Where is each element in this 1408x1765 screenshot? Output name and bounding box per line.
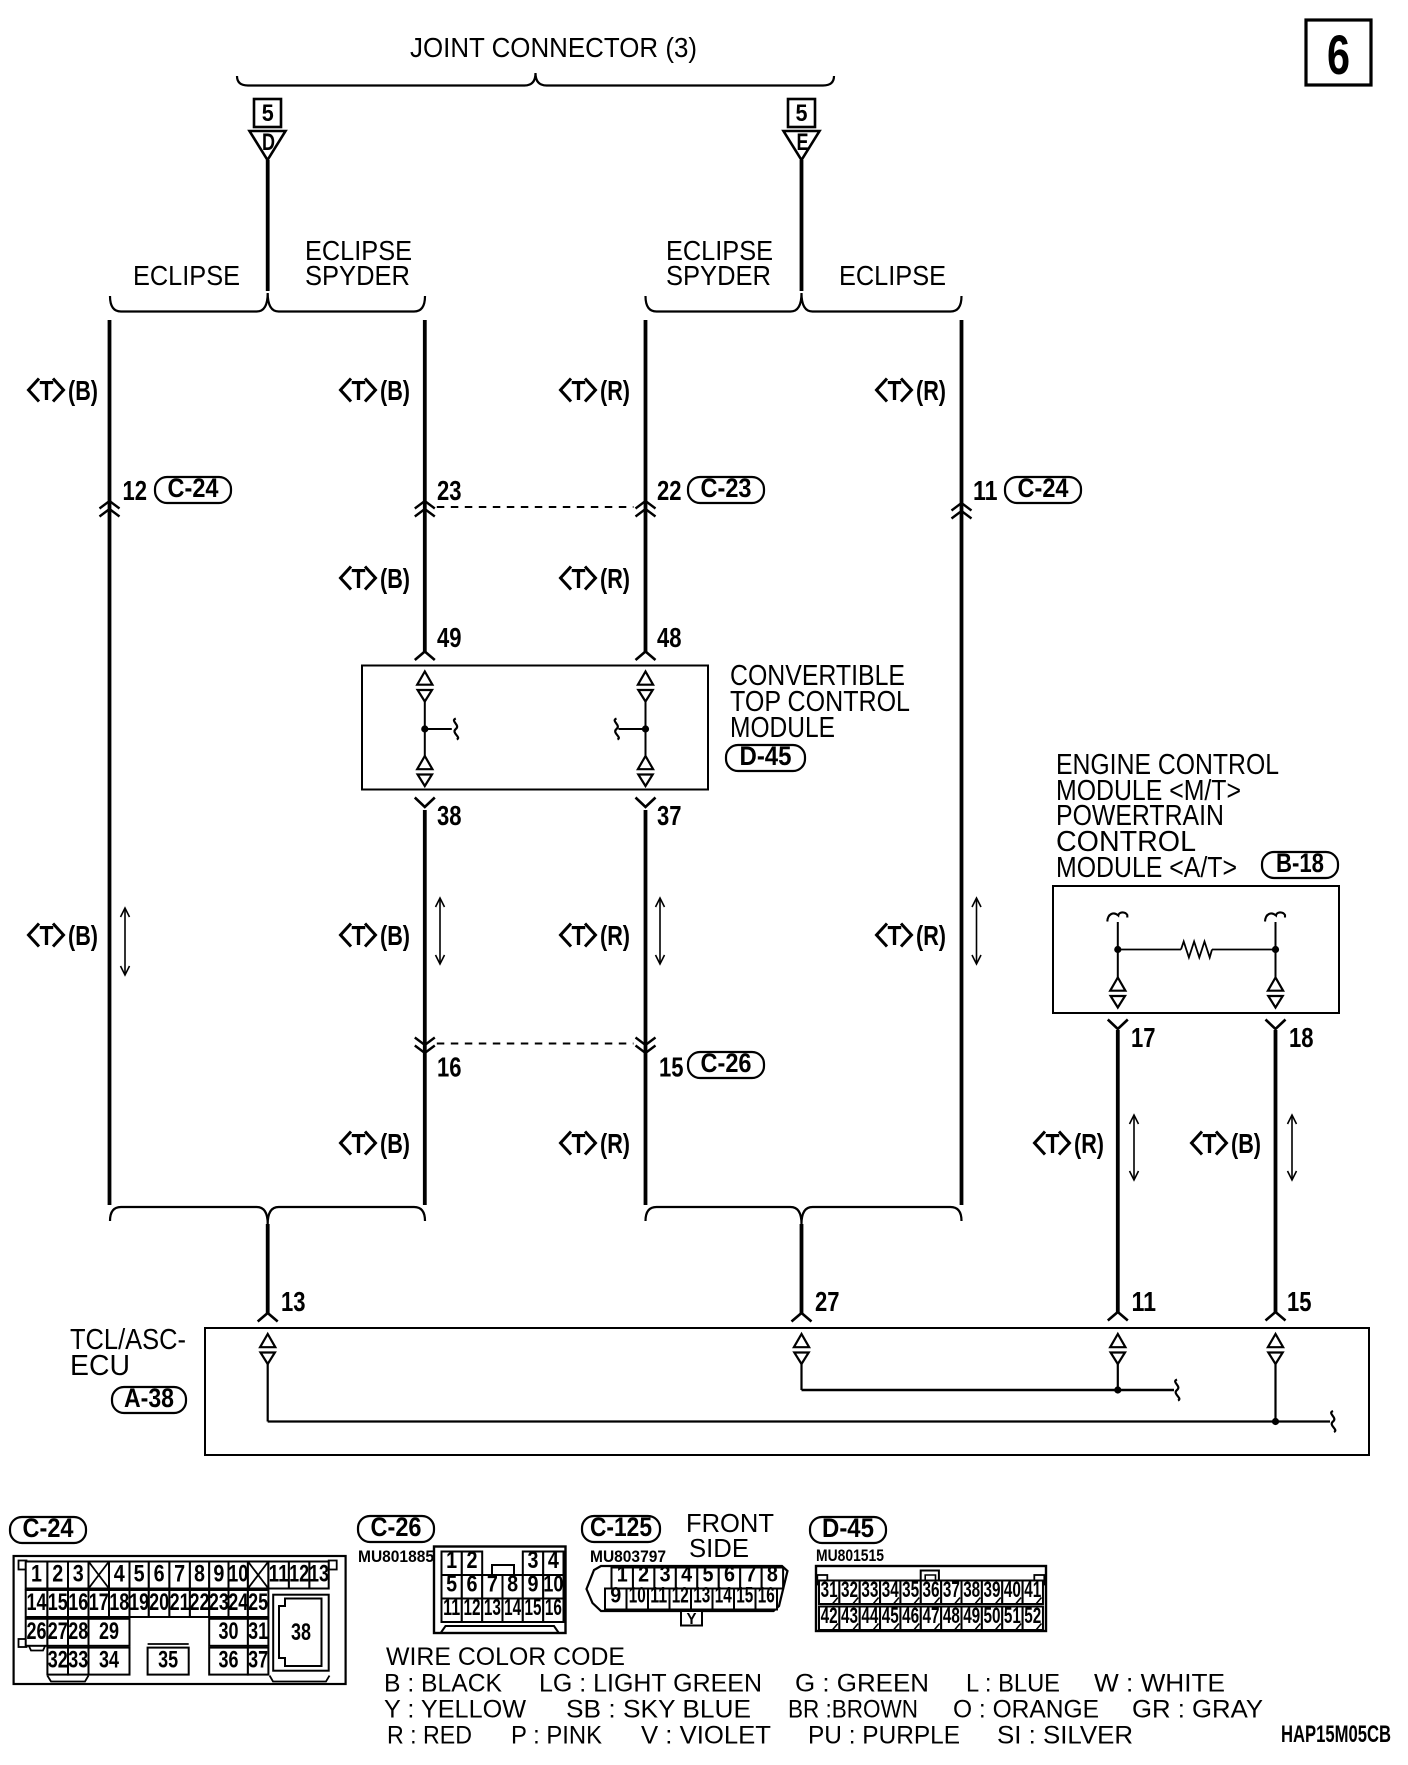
svg-text:ECLIPSE: ECLIPSE bbox=[133, 260, 240, 291]
TCL internal wire from 15 bbox=[1274, 1364, 1276, 1422]
connector ref C-24 (left) bbox=[155, 477, 231, 503]
label T(B) row C at L1 bbox=[29, 924, 40, 947]
ECM terminal triangles 17 bbox=[1110, 978, 1125, 991]
joint connector D (5) bbox=[250, 99, 286, 160]
terminal fork TCL pin 13 bbox=[258, 1313, 278, 1322]
arrow updown ECM 17 bbox=[1133, 1117, 1135, 1179]
label T(B) row C at L2 bbox=[341, 924, 352, 947]
svg-text:31: 31 bbox=[248, 1618, 268, 1645]
svg-text:SPYDER: SPYDER bbox=[666, 260, 771, 291]
svg-text:T: T bbox=[1046, 1128, 1060, 1159]
joint connector E (5) bbox=[784, 99, 820, 160]
connector crossing chevrons L2 bbox=[415, 501, 435, 509]
svg-text:(B): (B) bbox=[68, 375, 98, 406]
svg-text:11: 11 bbox=[1132, 1286, 1157, 1317]
terminal fork out of module at 38 bbox=[415, 798, 435, 808]
svg-text:48: 48 bbox=[657, 622, 682, 653]
svg-text:12: 12 bbox=[464, 1594, 481, 1620]
label T(B) at ECM wire 18 bbox=[1192, 1132, 1203, 1155]
wire to TCL pin 27 bbox=[800, 1224, 804, 1313]
svg-text:32: 32 bbox=[841, 1577, 858, 1602]
terminal fork out of module at 37 bbox=[636, 798, 656, 808]
svg-text:29: 29 bbox=[99, 1618, 119, 1645]
svg-text:Y : YELLOW: Y : YELLOW bbox=[384, 1696, 526, 1724]
svg-text:15: 15 bbox=[48, 1589, 68, 1616]
svg-text:10: 10 bbox=[228, 1561, 248, 1588]
svg-text:C-24: C-24 bbox=[1018, 473, 1069, 503]
label T(B) row D at L2 bbox=[341, 1132, 352, 1155]
svg-text:Y: Y bbox=[687, 1611, 697, 1628]
svg-text:P : PINK: P : PINK bbox=[511, 1722, 602, 1750]
arrow updown L4 bbox=[976, 900, 978, 963]
svg-text:C-24: C-24 bbox=[168, 473, 219, 503]
connector ref D-45 bbox=[726, 745, 805, 771]
svg-text:9: 9 bbox=[528, 1571, 539, 1597]
svg-text:27: 27 bbox=[48, 1618, 68, 1645]
svg-text:D-45: D-45 bbox=[740, 741, 792, 771]
svg-text:18: 18 bbox=[109, 1589, 129, 1616]
svg-text:32: 32 bbox=[48, 1647, 68, 1674]
svg-text:26: 26 bbox=[27, 1618, 47, 1645]
svg-text:38: 38 bbox=[963, 1577, 980, 1602]
brace bottom left group bbox=[110, 1207, 425, 1224]
connector ref C-24 (right) bbox=[1005, 477, 1081, 503]
svg-text:16: 16 bbox=[68, 1589, 88, 1616]
svg-text:MODULE: MODULE bbox=[730, 712, 835, 744]
svg-text:20: 20 bbox=[149, 1589, 169, 1616]
svg-text:34: 34 bbox=[882, 1577, 900, 1602]
TCL terminal triangles pin 13 bbox=[260, 1334, 275, 1347]
svg-text:7: 7 bbox=[174, 1561, 185, 1588]
svg-text:44: 44 bbox=[861, 1603, 879, 1628]
svg-text:31: 31 bbox=[821, 1577, 838, 1602]
svg-text:ECLIPSE: ECLIPSE bbox=[839, 260, 946, 291]
svg-text:T: T bbox=[572, 920, 586, 951]
svg-text:B-18: B-18 bbox=[1276, 848, 1324, 878]
resistor inside ECM bbox=[1118, 949, 1181, 951]
svg-text:40: 40 bbox=[1004, 1577, 1021, 1602]
svg-text:42: 42 bbox=[821, 1603, 838, 1628]
wire eclipse spyder right (L3) upper bbox=[644, 320, 648, 652]
brace right group bbox=[646, 293, 962, 312]
TCL internal wire from 27 bbox=[800, 1364, 802, 1390]
dashed link 16-15 bbox=[437, 1043, 634, 1045]
svg-text:6: 6 bbox=[467, 1571, 478, 1597]
svg-text:11: 11 bbox=[973, 475, 998, 506]
svg-text:37: 37 bbox=[657, 800, 682, 831]
svg-text:9: 9 bbox=[213, 1561, 224, 1588]
svg-text:T: T bbox=[352, 563, 366, 594]
svg-text:11: 11 bbox=[269, 1561, 289, 1588]
TCL terminal triangles pin 15 bbox=[1268, 1334, 1283, 1347]
svg-text:4: 4 bbox=[114, 1561, 126, 1588]
svg-text:(R): (R) bbox=[600, 375, 630, 406]
brace left group bbox=[110, 293, 425, 312]
svg-text:T: T bbox=[888, 920, 902, 951]
svg-text:(R): (R) bbox=[600, 1128, 630, 1159]
TCL terminal triangles pin 11 bbox=[1110, 1334, 1125, 1347]
svg-text:SIDE: SIDE bbox=[689, 1533, 749, 1563]
svg-text:15: 15 bbox=[736, 1583, 753, 1608]
svg-text:36: 36 bbox=[922, 1577, 939, 1602]
svg-text:13: 13 bbox=[281, 1286, 306, 1317]
connector crossing chevrons L1 bbox=[100, 501, 120, 509]
svg-text:5: 5 bbox=[134, 1561, 145, 1588]
svg-text:3: 3 bbox=[73, 1561, 84, 1588]
module internal connector pins at 49 bbox=[417, 672, 432, 685]
svg-text:21: 21 bbox=[170, 1589, 190, 1616]
connector ref C-26 (pinout) bbox=[358, 1516, 434, 1542]
connector crossing chevrons L4 bbox=[952, 503, 972, 511]
svg-text:22: 22 bbox=[657, 475, 682, 506]
connector pinout C-26 bbox=[434, 1547, 566, 1634]
connector pinout C-24 bbox=[14, 1556, 346, 1684]
label T(R) at ECM wire 17 bbox=[1035, 1132, 1046, 1155]
engine control module box B-18 bbox=[1053, 886, 1339, 1013]
svg-text:50: 50 bbox=[984, 1603, 1001, 1628]
wire from joint connector E bbox=[800, 160, 804, 291]
svg-text:16: 16 bbox=[758, 1583, 775, 1608]
svg-text:13: 13 bbox=[309, 1561, 329, 1588]
svg-text:C-125: C-125 bbox=[590, 1512, 652, 1542]
svg-text:34: 34 bbox=[99, 1647, 119, 1674]
svg-text:MODULE <A/T>: MODULE <A/T> bbox=[1056, 852, 1237, 884]
svg-text:V : VIOLET: V : VIOLET bbox=[641, 1722, 771, 1750]
label T(R) row A at L4 bbox=[877, 379, 888, 402]
module internal connector pins at 48 bbox=[638, 672, 653, 685]
svg-text:(R): (R) bbox=[916, 375, 946, 406]
terminal fork into module at 49 bbox=[415, 652, 435, 661]
svg-text:39: 39 bbox=[984, 1577, 1001, 1602]
svg-text:23: 23 bbox=[437, 475, 462, 506]
svg-text:T: T bbox=[572, 375, 586, 406]
connector ref A-38 bbox=[112, 1387, 186, 1413]
arrow updown L2 bbox=[439, 900, 441, 963]
label T(B) row B at L2 bbox=[341, 567, 352, 590]
terminal fork TCL pin 15 bbox=[1266, 1312, 1286, 1321]
svg-text:46: 46 bbox=[902, 1603, 919, 1628]
svg-text:C-23: C-23 bbox=[701, 473, 752, 503]
svg-text:(R): (R) bbox=[600, 563, 630, 594]
connector ref C-125 (pinout) bbox=[582, 1516, 660, 1542]
svg-text:16: 16 bbox=[437, 1052, 462, 1083]
svg-text:14: 14 bbox=[715, 1583, 733, 1608]
svg-text:JOINT CONNECTOR (3): JOINT CONNECTOR (3) bbox=[410, 32, 697, 63]
svg-text:7: 7 bbox=[487, 1571, 498, 1597]
connector ref B-18 bbox=[1262, 852, 1338, 878]
svg-text:R : RED: R : RED bbox=[387, 1722, 472, 1750]
svg-text:13: 13 bbox=[484, 1594, 501, 1620]
svg-text:T: T bbox=[572, 1128, 586, 1159]
svg-text:23: 23 bbox=[209, 1589, 229, 1616]
TCL/ASC-ECU box A-38 bbox=[205, 1328, 1369, 1455]
svg-text:T: T bbox=[888, 375, 902, 406]
svg-text:47: 47 bbox=[922, 1603, 939, 1628]
svg-text:B : BLACK: B : BLACK bbox=[384, 1670, 502, 1698]
svg-text:10: 10 bbox=[629, 1583, 646, 1608]
svg-text:28: 28 bbox=[68, 1618, 88, 1645]
label T(R) row C at L3 bbox=[561, 924, 572, 947]
svg-text:13: 13 bbox=[693, 1583, 710, 1608]
svg-text:(B): (B) bbox=[380, 563, 410, 594]
svg-text:T: T bbox=[40, 920, 54, 951]
terminal fork TCL pin 11 bbox=[1108, 1312, 1128, 1321]
svg-text:35: 35 bbox=[158, 1647, 178, 1674]
svg-text:(B): (B) bbox=[380, 920, 410, 951]
svg-text:PU : PURPLE: PU : PURPLE bbox=[808, 1722, 960, 1750]
svg-text:15: 15 bbox=[525, 1594, 542, 1620]
connector pinout C-125 bbox=[587, 1566, 788, 1611]
svg-text:6: 6 bbox=[1327, 23, 1350, 86]
svg-text:11: 11 bbox=[443, 1594, 460, 1620]
svg-text:38: 38 bbox=[437, 800, 462, 831]
connector crossing chevrons down L2 bbox=[415, 1038, 435, 1046]
wire from joint connector D bbox=[266, 160, 270, 291]
svg-text:(B): (B) bbox=[68, 920, 98, 951]
terminal fork out of ECM pin 18 bbox=[1266, 1020, 1286, 1030]
svg-text:12: 12 bbox=[289, 1561, 309, 1588]
connector ref D-45 (pinout) bbox=[810, 1517, 886, 1543]
wire eclipse spyder left (L2) upper bbox=[423, 320, 427, 652]
TCL terminal triangles pin 27 bbox=[794, 1334, 809, 1347]
svg-text:T: T bbox=[352, 1128, 366, 1159]
svg-text:33: 33 bbox=[861, 1577, 878, 1602]
svg-text:ECU: ECU bbox=[70, 1350, 130, 1382]
svg-text:D: D bbox=[262, 129, 275, 156]
svg-text:8: 8 bbox=[507, 1571, 518, 1597]
svg-text:T: T bbox=[1203, 1128, 1217, 1159]
svg-text:MU801885: MU801885 bbox=[358, 1547, 434, 1566]
svg-text:49: 49 bbox=[437, 622, 462, 653]
svg-text:45: 45 bbox=[882, 1603, 899, 1628]
svg-text:T: T bbox=[352, 375, 366, 406]
svg-text:15: 15 bbox=[659, 1052, 684, 1083]
connector ref C-26 bbox=[688, 1052, 764, 1078]
svg-text:LG : LIGHT GREEN: LG : LIGHT GREEN bbox=[539, 1670, 762, 1698]
svg-text:48: 48 bbox=[943, 1603, 960, 1628]
ECM internal pin 18 branch bbox=[1265, 912, 1285, 921]
arrow updown L1 bbox=[124, 910, 126, 974]
svg-text:41: 41 bbox=[1024, 1577, 1041, 1602]
svg-text:5: 5 bbox=[796, 100, 808, 127]
connector pinout D-45 bbox=[816, 1566, 1046, 1631]
wire to TCL pin 13 bbox=[266, 1224, 270, 1313]
svg-text:49: 49 bbox=[963, 1603, 980, 1628]
svg-text:16: 16 bbox=[545, 1594, 562, 1620]
svg-text:12: 12 bbox=[672, 1583, 689, 1608]
svg-text:12: 12 bbox=[123, 475, 148, 506]
wire eclipse spyder left (L2) lower bbox=[423, 810, 427, 1205]
svg-text:(R): (R) bbox=[1074, 1128, 1104, 1159]
svg-text:30: 30 bbox=[219, 1618, 239, 1645]
svg-text:19: 19 bbox=[129, 1589, 149, 1616]
label T(B) row A at L2 bbox=[341, 379, 352, 402]
TCL internal wire from 11 bbox=[1117, 1364, 1119, 1390]
brace bottom right group bbox=[646, 1207, 962, 1224]
svg-text:D-45: D-45 bbox=[822, 1513, 874, 1543]
svg-text:33: 33 bbox=[68, 1647, 88, 1674]
svg-text:SI : SILVER: SI : SILVER bbox=[997, 1722, 1133, 1750]
svg-text:38: 38 bbox=[291, 1619, 311, 1646]
svg-text:9: 9 bbox=[610, 1583, 621, 1608]
svg-text:2: 2 bbox=[52, 1561, 63, 1588]
svg-text:37: 37 bbox=[943, 1577, 960, 1602]
svg-text:W : WHITE: W : WHITE bbox=[1094, 1670, 1225, 1698]
svg-text:(B): (B) bbox=[1231, 1128, 1261, 1159]
svg-text:GR : GRAY: GR : GRAY bbox=[1132, 1696, 1263, 1724]
svg-text:35: 35 bbox=[902, 1577, 919, 1602]
convertible top control module box D-45 bbox=[362, 666, 708, 790]
svg-text:14: 14 bbox=[504, 1594, 521, 1620]
label T(R) row A at L3 bbox=[561, 379, 572, 402]
terminal fork out of ECM pin 17 bbox=[1108, 1020, 1128, 1030]
svg-text:18: 18 bbox=[1289, 1022, 1314, 1053]
svg-text:(R): (R) bbox=[916, 920, 946, 951]
svg-text:BR :BROWN: BR :BROWN bbox=[788, 1696, 918, 1724]
svg-text:37: 37 bbox=[248, 1647, 268, 1674]
svg-text:T: T bbox=[352, 920, 366, 951]
ECM internal pin 17 branch bbox=[1107, 912, 1127, 921]
connector crossing chevrons L3 bbox=[636, 501, 656, 509]
svg-text:25: 25 bbox=[248, 1589, 268, 1616]
svg-text:11: 11 bbox=[650, 1583, 667, 1608]
svg-text:T: T bbox=[40, 375, 54, 406]
svg-text:5: 5 bbox=[446, 1571, 457, 1597]
svg-text:L : BLUE: L : BLUE bbox=[966, 1670, 1060, 1698]
svg-text:52: 52 bbox=[1024, 1603, 1041, 1628]
svg-text:1: 1 bbox=[31, 1561, 42, 1588]
svg-text:22: 22 bbox=[190, 1589, 210, 1616]
wire ECM 18 down bbox=[1274, 1030, 1278, 1312]
wire eclipse left (L1) bbox=[108, 320, 112, 1205]
svg-text:27: 27 bbox=[815, 1286, 840, 1317]
svg-text:SB : SKY BLUE: SB : SKY BLUE bbox=[566, 1696, 751, 1724]
terminal fork TCL pin 27 bbox=[792, 1313, 812, 1322]
svg-text:A-38: A-38 bbox=[124, 1383, 174, 1413]
svg-text:MU803797: MU803797 bbox=[590, 1547, 666, 1566]
svg-text:C-24: C-24 bbox=[23, 1513, 74, 1543]
svg-text:HAP15M05CB: HAP15M05CB bbox=[1281, 1721, 1391, 1748]
svg-text:17: 17 bbox=[89, 1589, 109, 1616]
svg-text:E: E bbox=[797, 129, 809, 156]
svg-text:O : ORANGE: O : ORANGE bbox=[953, 1696, 1099, 1724]
svg-text:14: 14 bbox=[27, 1589, 47, 1616]
svg-text:(R): (R) bbox=[600, 920, 630, 951]
label T(R) row D at L3 bbox=[561, 1132, 572, 1155]
arrow updown L3 bbox=[659, 900, 661, 963]
terminal fork into module at 48 bbox=[636, 652, 656, 661]
svg-text:51: 51 bbox=[1004, 1603, 1021, 1628]
svg-text:36: 36 bbox=[219, 1647, 239, 1674]
label T(B) row A at L1 bbox=[29, 379, 40, 402]
svg-text:10: 10 bbox=[543, 1571, 563, 1597]
svg-text:(B): (B) bbox=[380, 375, 410, 406]
svg-text:8: 8 bbox=[194, 1561, 205, 1588]
svg-text:C-26: C-26 bbox=[701, 1048, 752, 1078]
connector ref C-23 bbox=[688, 477, 764, 503]
svg-text:43: 43 bbox=[841, 1603, 858, 1628]
ECM terminal triangles 18 bbox=[1268, 978, 1283, 991]
svg-text:MU801515: MU801515 bbox=[816, 1546, 884, 1565]
svg-text:G : GREEN: G : GREEN bbox=[795, 1670, 929, 1698]
TCL internal wire from 13 bbox=[267, 1364, 269, 1422]
label T(R) row B at L3 bbox=[561, 567, 572, 590]
svg-text:6: 6 bbox=[154, 1561, 165, 1588]
svg-text:C-26: C-26 bbox=[371, 1512, 422, 1542]
connector crossing chevrons down L3 bbox=[636, 1038, 656, 1046]
svg-text:(B): (B) bbox=[380, 1128, 410, 1159]
page number box 6 bbox=[1306, 20, 1371, 85]
label T(R) row C at L4 bbox=[877, 924, 888, 947]
svg-text:24: 24 bbox=[228, 1589, 248, 1616]
connector ref C-24 (pinout) bbox=[10, 1517, 86, 1543]
dashed link 23-22 bbox=[437, 506, 634, 508]
svg-text:5: 5 bbox=[262, 100, 274, 127]
wire eclipse spyder right (L3) lower bbox=[644, 810, 648, 1205]
svg-text:15: 15 bbox=[1287, 1286, 1312, 1317]
wire ECM 17 down bbox=[1116, 1030, 1120, 1312]
svg-text:17: 17 bbox=[1131, 1022, 1156, 1053]
svg-text:SPYDER: SPYDER bbox=[305, 260, 410, 291]
wire eclipse right (L4) bbox=[960, 320, 964, 1205]
svg-text:T: T bbox=[572, 563, 586, 594]
arrow updown ECM 18 bbox=[1291, 1117, 1293, 1179]
brace joint connector bbox=[237, 73, 834, 86]
svg-text:WIRE COLOR CODE: WIRE COLOR CODE bbox=[386, 1643, 625, 1671]
